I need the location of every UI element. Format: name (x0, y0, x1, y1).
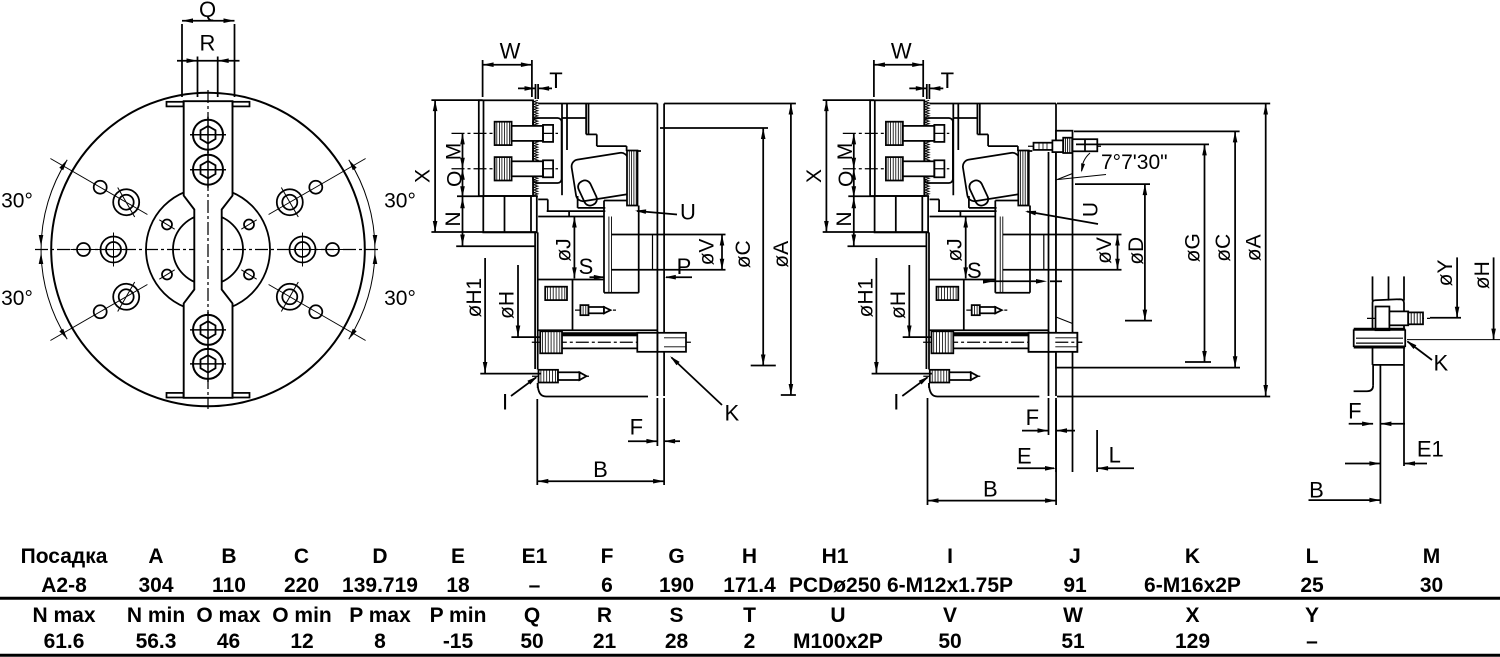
svg-text:50: 50 (520, 630, 543, 653)
svg-text:W: W (1063, 604, 1083, 627)
svg-text:-15: -15 (443, 630, 474, 653)
svg-text:H1: H1 (822, 545, 849, 568)
svg-text:7°7'30": 7°7'30" (1101, 151, 1168, 174)
svg-text:91: 91 (1063, 574, 1087, 597)
svg-text:U: U (830, 604, 845, 627)
svg-text:øJ: øJ (552, 238, 575, 261)
svg-text:139.719: 139.719 (342, 574, 418, 597)
svg-text:28: 28 (665, 630, 689, 653)
svg-text:P: P (677, 254, 692, 279)
svg-text:30°: 30° (1, 287, 33, 310)
svg-text:6-M12x1.75P: 6-M12x1.75P (887, 574, 1013, 597)
svg-text:E1: E1 (1417, 437, 1444, 462)
svg-text:K: K (724, 400, 739, 425)
svg-text:U: U (680, 199, 696, 224)
svg-text:190: 190 (659, 574, 694, 597)
svg-text:Посадка: Посадка (21, 545, 108, 568)
svg-text:F: F (1348, 398, 1361, 423)
svg-text:E: E (451, 545, 465, 568)
svg-text:N max: N max (32, 604, 95, 627)
svg-text:30°: 30° (384, 189, 416, 212)
svg-text:304: 304 (138, 574, 173, 597)
svg-text:2: 2 (744, 630, 756, 653)
svg-text:P min: P min (430, 604, 487, 627)
svg-text:B: B (983, 477, 998, 502)
svg-text:I: I (502, 390, 508, 415)
svg-text:–: – (529, 574, 541, 597)
svg-text:S: S (669, 604, 683, 627)
svg-text:Q: Q (199, 0, 216, 22)
svg-text:øH: øH (1471, 261, 1494, 289)
svg-text:K: K (1185, 545, 1200, 568)
svg-text:S: S (579, 254, 594, 279)
svg-text:B: B (1309, 478, 1324, 503)
svg-text:J: J (1069, 545, 1081, 568)
svg-text:B: B (221, 545, 236, 568)
svg-text:U: U (1080, 202, 1103, 217)
svg-text:G: G (668, 545, 684, 568)
svg-text:A: A (148, 545, 163, 568)
svg-text:øY: øY (1434, 259, 1457, 286)
svg-text:W: W (500, 39, 521, 64)
svg-text:Y: Y (1305, 604, 1319, 627)
svg-text:V: V (943, 604, 957, 627)
svg-text:øH1: øH1 (855, 278, 878, 318)
svg-text:øA: øA (1242, 234, 1265, 261)
svg-text:61.6: 61.6 (44, 630, 85, 653)
svg-text:21: 21 (593, 630, 617, 653)
svg-text:M100x2P: M100x2P (793, 630, 883, 653)
svg-text:110: 110 (212, 574, 246, 597)
svg-text:L: L (1109, 443, 1121, 468)
svg-text:C: C (294, 545, 309, 568)
svg-text:171.4: 171.4 (723, 574, 776, 597)
svg-text:S: S (967, 258, 982, 283)
svg-text:øH1: øH1 (463, 278, 486, 318)
svg-text:30: 30 (1420, 574, 1443, 597)
svg-text:O min: O min (272, 604, 332, 627)
svg-text:6: 6 (601, 574, 613, 597)
svg-text:L: L (1306, 545, 1319, 568)
svg-text:R: R (200, 31, 216, 56)
svg-text:M: M (1423, 545, 1441, 568)
svg-text:F: F (601, 545, 614, 568)
svg-text:220: 220 (284, 574, 319, 597)
svg-text:F: F (630, 414, 643, 439)
svg-text:øA: øA (770, 241, 793, 268)
svg-text:X: X (1185, 604, 1199, 627)
svg-text:øJ: øJ (944, 238, 967, 261)
svg-text:18: 18 (446, 574, 470, 597)
svg-text:K: K (1433, 351, 1448, 376)
svg-text:E1: E1 (522, 545, 548, 568)
svg-text:øG: øG (1182, 233, 1205, 262)
svg-text:X: X (412, 169, 435, 183)
svg-text:30°: 30° (384, 287, 416, 310)
svg-text:W: W (891, 39, 912, 64)
svg-text:øD: øD (1125, 237, 1148, 265)
svg-text:B: B (593, 457, 608, 482)
svg-text:X: X (803, 169, 826, 183)
svg-text:øV: øV (1093, 237, 1116, 264)
svg-text:25: 25 (1300, 574, 1324, 597)
svg-text:øH: øH (887, 291, 910, 319)
svg-text:N: N (442, 211, 465, 226)
svg-text:12: 12 (290, 630, 313, 653)
svg-text:R: R (597, 604, 612, 627)
svg-text:N: N (833, 211, 856, 226)
svg-text:56.3: 56.3 (136, 630, 177, 653)
svg-text:A2-8: A2-8 (41, 574, 87, 597)
svg-text:øH: øH (496, 291, 519, 319)
svg-text:øC: øC (1212, 234, 1235, 262)
svg-text:–: – (1306, 630, 1318, 653)
svg-text:8: 8 (374, 630, 386, 653)
svg-text:30°: 30° (1, 189, 33, 212)
svg-text:F: F (1026, 405, 1039, 430)
svg-text:D: D (372, 545, 387, 568)
svg-text:51: 51 (1061, 630, 1085, 653)
svg-text:PCDø250: PCDø250 (789, 574, 881, 597)
svg-text:46: 46 (217, 630, 240, 653)
svg-text:6-M16x2P: 6-M16x2P (1144, 574, 1241, 597)
svg-text:øC: øC (732, 240, 755, 268)
svg-text:E: E (1017, 444, 1032, 469)
svg-text:P max: P max (349, 604, 411, 627)
svg-text:129: 129 (1175, 630, 1210, 653)
svg-text:I: I (893, 390, 899, 415)
svg-text:I: I (947, 545, 953, 568)
svg-text:O max: O max (196, 604, 261, 627)
svg-text:N min: N min (127, 604, 185, 627)
svg-text:T: T (743, 604, 756, 627)
svg-text:50: 50 (938, 630, 961, 653)
svg-text:H: H (742, 545, 757, 568)
svg-text:øV: øV (695, 239, 718, 266)
svg-text:Q: Q (524, 604, 540, 627)
